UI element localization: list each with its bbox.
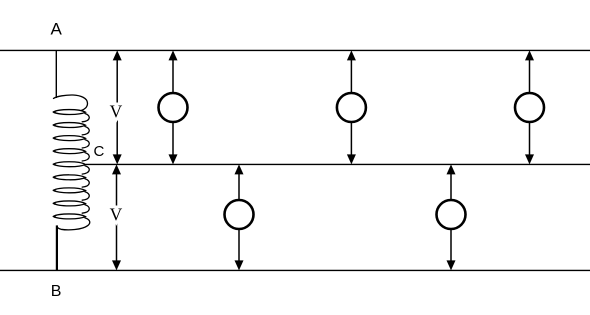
wire from A rail down to coil top: [55, 50, 57, 98]
svg-text:A: A: [51, 19, 63, 38]
load lamp L1 with through-arrow: [159, 50, 188, 164]
wire middle rail (node C rail): [86, 163, 590, 165]
svg-text:B: B: [51, 283, 62, 300]
wire top rail (node A rail): [0, 49, 590, 51]
inductor coil L1 (autotransformer winding): [53, 95, 90, 230]
svg-text:C: C: [94, 143, 105, 160]
load lamp L3 with through-arrow: [515, 50, 544, 164]
load lamp L5 with through-arrow: [437, 164, 466, 270]
load lamp L2 with through-arrow: [337, 50, 366, 164]
wire from coil bottom to B rail: [56, 225, 58, 270]
voltmeter arrow V2 (bottom span): [112, 164, 121, 270]
voltmeter arrow V1 (top span): [113, 50, 122, 164]
svg-text:V: V: [110, 205, 123, 225]
wire bottom rail (node B rail): [0, 269, 590, 271]
svg-text:V: V: [110, 102, 123, 122]
load lamp L4 with through-arrow: [225, 164, 254, 270]
